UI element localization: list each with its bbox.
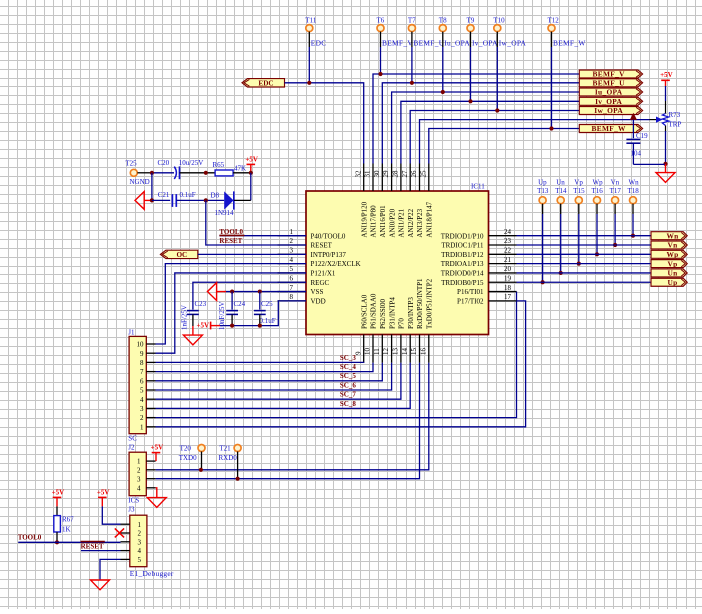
svg-text:SC_7: SC_7 [340, 391, 356, 399]
svg-text:T12: T12 [548, 17, 560, 25]
IC pin 28 (ANI1/P21) [392, 164, 406, 238]
svg-text:2: 2 [290, 237, 294, 245]
svg-text:R65: R65 [213, 161, 225, 169]
wire net SC_4 [156, 363, 374, 372]
svg-text:C25: C25 [261, 300, 273, 308]
junction Iw_OPA/T10 [495, 108, 499, 112]
svg-text:TRDIOB1/P12: TRDIOB1/P12 [441, 251, 484, 259]
wire J3 pin5 to gnd [100, 559, 121, 580]
svg-text:VSS: VSS [311, 288, 324, 296]
wire T21 drop [237, 452, 239, 479]
test point T15 (Vp) [573, 178, 585, 203]
svg-text:1: 1 [290, 228, 294, 236]
svg-text:T11: T11 [305, 17, 317, 25]
wire T9 to net row [470, 32, 472, 47]
svg-text:21: 21 [504, 256, 512, 264]
J2 pin 1 [137, 458, 156, 466]
svg-text:ANI2/P22: ANI2/P22 [407, 208, 415, 237]
svg-text:29: 29 [382, 170, 390, 178]
capacitor C24 10nF/25V [218, 292, 246, 330]
svg-text:INTP0/P137: INTP0/P137 [311, 251, 347, 259]
svg-text:T15: T15 [573, 187, 585, 195]
wire net TXD0 (J2 pin2 - IC pin16) [156, 363, 429, 470]
test point T25 (NGND) [130, 169, 137, 176]
wire net SC_6 [156, 363, 392, 390]
svg-text:T17: T17 [610, 187, 622, 195]
svg-text:104: 104 [631, 150, 642, 158]
IC pin 29 (ANI0/P20) [382, 164, 396, 238]
svg-text:T8: T8 [439, 17, 447, 25]
svg-text:12: 12 [382, 348, 390, 356]
wire net X2 (J1 pin10 - IC pin4) [156, 264, 307, 344]
J1 pin 10 [137, 341, 156, 349]
junction VSS/C24 [230, 289, 234, 293]
svg-text:9: 9 [140, 350, 144, 358]
svg-text:TRDIOC1/P11: TRDIOC1/P11 [441, 242, 484, 250]
svg-text:NGND: NGND [130, 178, 150, 186]
svg-text:T25: T25 [125, 160, 137, 168]
net flag Iv_OPA [579, 97, 642, 106]
IC pin 31 (ANI17/P80) [364, 164, 378, 238]
junction BEMF_W/T12 [549, 126, 553, 130]
test point T18 (Wn) [628, 178, 640, 203]
svg-text:2: 2 [137, 466, 141, 474]
svg-text:T14: T14 [555, 187, 567, 195]
wire net SC_5 [156, 363, 383, 381]
svg-text:C19: C19 [636, 132, 648, 140]
wire node to D8 cathode [250, 173, 252, 201]
J2 pin 4 [137, 484, 156, 492]
svg-text:19: 19 [504, 274, 512, 282]
wire R65 to +5V node [233, 172, 251, 174]
svg-text:ANI16/P01: ANI16/P01 [379, 205, 387, 238]
svg-text:T7: T7 [408, 17, 416, 25]
svg-text:T20: T20 [180, 444, 192, 452]
IC pin 12 (P31/INTP4) [382, 297, 396, 363]
ground (J3) [91, 580, 110, 590]
svg-text:C23: C23 [195, 300, 207, 308]
wire T13 drop [542, 204, 544, 214]
svg-text:13: 13 [392, 348, 400, 356]
net flag BEMF_W [579, 124, 642, 133]
svg-text:EDC: EDC [311, 38, 327, 47]
wire net VSS [225, 291, 307, 293]
capacitor C21 0.1uF [158, 191, 196, 207]
wire net TI01 (IC pin18 - J1 pin2) [156, 292, 517, 418]
svg-text:2: 2 [140, 414, 144, 422]
svg-text:Wp: Wp [593, 178, 604, 186]
wire net Vp [517, 263, 653, 265]
wire net OC (pin3) [198, 253, 306, 255]
wire +5V to R73 [665, 80, 667, 86]
J2 pin 2 [137, 466, 156, 474]
wire gnd stub VSS [217, 291, 226, 293]
junction VDD/C24 [230, 324, 234, 328]
svg-text:30: 30 [373, 170, 381, 178]
svg-text:RESET: RESET [81, 543, 104, 551]
wire gnd stub [665, 164, 667, 173]
test point T11 (EDC) [305, 17, 326, 48]
svg-text:ANI18/P147: ANI18/P147 [426, 201, 434, 237]
IC pin 18 (P16/TI01) [457, 284, 516, 296]
IC pin 30 (ANI16/P01) [373, 164, 387, 238]
J1 pin 7 [140, 368, 156, 376]
IC pin 2 (RESET) [278, 237, 333, 249]
svg-text:+5V: +5V [245, 155, 258, 163]
svg-text:Vn: Vn [667, 241, 677, 250]
wire T15 drop [578, 204, 580, 214]
IC pin 25 (ANI18/P147) [419, 164, 433, 238]
junction R65/+5V/D8 [249, 171, 253, 175]
junction EDC/T11 [307, 81, 311, 85]
svg-text:Wn: Wn [666, 231, 678, 240]
svg-text:26: 26 [410, 170, 418, 178]
J3 pin 4 [121, 547, 142, 555]
svg-text:BEMF_U: BEMF_U [593, 79, 626, 88]
wire net TOOL0 (pin1) [219, 235, 306, 237]
junction T17 [613, 243, 617, 247]
svg-text:Un: Un [556, 178, 565, 186]
svg-text:Iw_OPA: Iw_OPA [594, 106, 623, 115]
svg-text:T9: T9 [467, 17, 475, 25]
svg-text:10: 10 [137, 341, 145, 349]
net flag Up [651, 278, 687, 287]
svg-text:4: 4 [290, 256, 294, 264]
svg-text:RESET: RESET [219, 237, 242, 245]
IC pin 16 (TxD0/P51/INTP2) [419, 278, 433, 362]
wire net SC_3 [156, 361, 364, 363]
wire gnd to C21 [144, 199, 152, 201]
svg-text:R73: R73 [669, 111, 681, 119]
ground (C23) [183, 335, 202, 345]
wire net VDD [220, 301, 306, 326]
wire T6 to net row [380, 32, 382, 47]
wire net Iv_OPA [401, 101, 579, 163]
svg-text:0.1uF: 0.1uF [180, 191, 196, 199]
J1 pin 4 [140, 396, 156, 404]
ground (R73/C19) [656, 173, 675, 183]
wire T20 drop [201, 452, 203, 470]
svg-text:Un: Un [667, 269, 677, 278]
svg-text:TRP: TRP [669, 121, 682, 129]
svg-text:T10: T10 [493, 17, 505, 25]
net flag Iu_OPA [579, 88, 642, 97]
net flag Wn [651, 231, 687, 240]
IC pin 13 (P70) [392, 318, 406, 363]
svg-text:C24: C24 [234, 300, 246, 308]
svg-text:J3: J3 [128, 506, 135, 514]
IC pin 27 (ANI2/P22) [401, 164, 415, 238]
wire D8 cathode [234, 199, 251, 201]
svg-text:BEMF_U: BEMF_U [413, 38, 444, 47]
svg-text:P121/X1: P121/X1 [311, 270, 336, 278]
IC pin 11 (P62/SSI00) [373, 299, 387, 363]
svg-text:10: 10 [364, 348, 372, 356]
svg-text:T21: T21 [219, 444, 231, 452]
wire net SC_8 [156, 363, 411, 409]
svg-text:20: 20 [504, 265, 512, 273]
J1 pin 8 [140, 359, 156, 367]
IC pin 4 (P122/X2/EXCLK) [278, 256, 361, 268]
junction T14 [559, 271, 563, 275]
J1 pin 3 [140, 405, 156, 413]
svg-text:28: 28 [392, 170, 400, 178]
svg-text:2: 2 [138, 530, 142, 538]
connector J1 (SC) [128, 329, 146, 443]
IC pin 17 (P17/TI02) [457, 293, 516, 305]
+5V power (R73) [660, 71, 673, 80]
wire net Iu_OPA [392, 92, 580, 164]
svg-text:TOOL0: TOOL0 [18, 534, 42, 542]
J3 pin 1 [121, 521, 142, 529]
arrow marker on Iw row at C19 branch [630, 113, 637, 120]
svg-text:ICS: ICS [128, 496, 139, 504]
svg-text:15: 15 [410, 348, 418, 356]
trimmer R73 (TRP) [650, 101, 682, 131]
wire net Wn [517, 235, 653, 237]
test point T21 (RXD0) [234, 445, 241, 452]
wire net SC_7 [156, 363, 401, 399]
wire T8 to net row [442, 32, 444, 47]
junction T16 [595, 252, 599, 256]
net flag OC [160, 250, 197, 259]
wire net BEMF_U [382, 83, 579, 164]
svg-text:5: 5 [138, 556, 142, 564]
net flag Iw_OPA [579, 106, 642, 115]
svg-text:R67: R67 [62, 516, 74, 524]
svg-text:SC_8: SC_8 [340, 400, 356, 408]
svg-text:3: 3 [290, 247, 294, 255]
svg-text:16: 16 [419, 348, 427, 356]
net flag EDC [242, 79, 285, 88]
svg-text:8: 8 [140, 359, 144, 367]
test point T7 (BEMF_U) [408, 17, 445, 48]
IC pin 9 (P60/SCLA0) [354, 294, 368, 363]
wire T11 to net row [308, 32, 310, 47]
svg-text:D8: D8 [211, 192, 220, 200]
IC pin 21 (TRDIOA1/P13) [441, 256, 517, 268]
svg-text:1nF/25V: 1nF/25V [181, 305, 189, 330]
svg-text:J2: J2 [128, 444, 135, 452]
ground (C21) [135, 192, 144, 210]
svg-text:Up: Up [538, 178, 547, 186]
J1 pin 2 [140, 414, 156, 422]
J1 pin 9 [140, 350, 156, 358]
svg-text:RESET: RESET [311, 242, 333, 250]
svg-text:10u/25V: 10u/25V [179, 159, 204, 167]
capacitor C19 [626, 120, 648, 165]
svg-text:1K: 1K [62, 526, 71, 534]
svg-text:3: 3 [138, 538, 142, 546]
svg-text:5: 5 [140, 387, 144, 395]
IC pin 14 (P30/INTP3) [401, 297, 415, 363]
svg-text:OC: OC [176, 251, 187, 259]
wire net RESET (bottom) [81, 550, 121, 552]
junction Iu_OPA/T8 [441, 90, 445, 94]
svg-text:6: 6 [140, 377, 144, 385]
resistor R67 1K [54, 516, 74, 534]
svg-text:+5V: +5V [197, 321, 210, 329]
junction C20/D8 branch [204, 171, 208, 175]
junction C21 left [150, 198, 154, 202]
net flag Wp [651, 250, 687, 259]
svg-text:22: 22 [504, 247, 512, 255]
net flag BEMF_U [579, 79, 642, 88]
svg-text:P60/SCLA0: P60/SCLA0 [360, 294, 368, 329]
svg-text:ANI1/P21: ANI1/P21 [398, 208, 406, 237]
wire net BEMF_W [429, 129, 580, 164]
wire C19 to gnd node [633, 163, 665, 165]
svg-text:Vp: Vp [667, 259, 677, 268]
net flag Un [651, 269, 687, 278]
svg-text:T16: T16 [592, 187, 604, 195]
+5V power (J3) [97, 488, 110, 497]
wire +5V to J2 pin1 [155, 453, 157, 462]
IC pin 22 (TRDIOB1/P12) [441, 247, 516, 259]
svg-text:J1: J1 [128, 329, 135, 337]
wire net Un [517, 272, 653, 274]
svg-text:Vn: Vn [611, 178, 620, 186]
svg-text:3: 3 [140, 405, 144, 413]
svg-text:E1_Debugger: E1_Debugger [130, 569, 174, 578]
wire +5V to R67 [56, 497, 58, 506]
svg-text:TRDIOA1/P13: TRDIOA1/P13 [441, 260, 484, 268]
wire net Iw_OPA [410, 111, 579, 164]
net flag Vn [651, 241, 687, 250]
wire net Wp [517, 253, 653, 255]
+5V power (VDD rail) [197, 321, 221, 329]
IC pin 32 (ANI19/P120) [354, 164, 368, 238]
wire T25 to node [137, 172, 152, 174]
wire net BEMF_V [373, 74, 579, 164]
wire T10 to net row [496, 32, 498, 47]
svg-text:SC_4: SC_4 [340, 363, 356, 371]
svg-text:Vp: Vp [574, 178, 583, 186]
wire T18 drop [632, 204, 634, 214]
svg-text:7: 7 [290, 284, 294, 292]
+5V power (J2) [151, 444, 164, 453]
svg-text:Iv_OPA: Iv_OPA [595, 97, 622, 106]
wire net TOOL0 (bottom) [18, 541, 120, 543]
junction T15 [577, 262, 581, 266]
IC pin 24 (TRDIOD1/P10) [441, 228, 517, 240]
+5V power (R67) [52, 488, 65, 497]
IC pin 3 (INTP0/P137) [278, 247, 347, 259]
svg-text:T6: T6 [377, 17, 385, 25]
IC pin 6 (REGC) [278, 274, 330, 286]
svg-text:1: 1 [138, 521, 142, 529]
wire to C21 [152, 199, 170, 201]
IC pin 7 (VSS) [278, 284, 324, 296]
connector J2 (ICS) [128, 444, 146, 505]
IC pin 5 (P121/X1) [278, 265, 336, 277]
test point T8 (Iu_OPA) [439, 17, 471, 48]
svg-text:7: 7 [140, 368, 144, 376]
connector J3 (E1_Debugger) [128, 506, 174, 579]
svg-text:RxD0/P50/INTP1: RxD0/P50/INTP1 [416, 278, 424, 329]
svg-text:1: 1 [137, 458, 141, 466]
svg-text:IC11: IC11 [471, 182, 485, 190]
svg-text:P70: P70 [398, 318, 406, 329]
junction Iv_OPA/T9 [468, 99, 472, 103]
svg-text:+5V: +5V [97, 488, 110, 496]
J3 pin 3 [121, 538, 142, 546]
svg-text:17: 17 [504, 293, 512, 301]
svg-text:Wp: Wp [666, 250, 678, 259]
IC pin 20 (TRDIOD0/P14) [441, 265, 517, 277]
svg-text:BEMF_V: BEMF_V [593, 70, 626, 79]
vertical wire T25 node to C21 node [151, 173, 153, 201]
junction R73/C19 gnd node [663, 162, 667, 166]
wire C21 to D8 [176, 199, 224, 201]
svg-text:SC_3: SC_3 [340, 354, 356, 362]
svg-text:25: 25 [419, 170, 427, 178]
svg-text:Iv_OPA: Iv_OPA [472, 38, 498, 47]
svg-text:Wn: Wn [629, 178, 640, 186]
IC pin 1 (P40/TOOL0) [278, 228, 346, 240]
IC pin 26 (ANI3/P23) [410, 164, 424, 238]
test point T14 (Un) [555, 178, 567, 203]
IC pin 23 (TRDIOC1/P11) [441, 237, 516, 249]
wire T14 drop [560, 204, 562, 214]
svg-text:47K: 47K [234, 164, 246, 172]
junction BEMF_V/T6 [378, 72, 382, 76]
wire net X1 (J1 pin9 - IC pin5) [156, 273, 307, 353]
svg-text:+5V: +5V [52, 488, 65, 496]
svg-text:T13: T13 [537, 187, 549, 195]
svg-text:Up: Up [667, 278, 677, 287]
IC pin 8 (VDD) [278, 293, 326, 305]
IC pin 10 (P61/SDAA0) [364, 293, 378, 363]
wire T7 to net row [411, 32, 413, 47]
svg-text:VDD: VDD [311, 297, 326, 305]
svg-text:+5V: +5V [151, 444, 164, 452]
svg-text:P31/INTP4: P31/INTP4 [388, 297, 396, 329]
svg-text:27: 27 [401, 170, 409, 178]
test point T16 (Wp) [592, 178, 604, 203]
svg-text:BEMF_V: BEMF_V [382, 38, 413, 47]
junction C21/D8/RESET [204, 198, 208, 202]
svg-text:SC_6: SC_6 [340, 381, 356, 389]
J2 pin 3 [137, 475, 156, 483]
svg-text:5: 5 [290, 265, 294, 273]
svg-text:+5V: +5V [660, 71, 673, 79]
capacitor C20 [158, 159, 204, 179]
svg-text:1: 1 [140, 423, 144, 431]
svg-text:31: 31 [364, 170, 372, 178]
wire net Vn [517, 244, 653, 246]
svg-text:TxD0/P51/INTP2: TxD0/P51/INTP2 [426, 278, 434, 329]
wire net RESET (D8 node to pin2) [206, 200, 306, 245]
net flag BEMF_V [579, 70, 642, 79]
resistor R65 47K [213, 161, 247, 176]
svg-text:ANI17/P80: ANI17/P80 [370, 205, 378, 238]
junction BEMF_U/T7 [410, 81, 414, 85]
test point T10 (Iw_OPA) [493, 17, 526, 48]
svg-text:8: 8 [290, 293, 294, 301]
svg-text:18: 18 [504, 284, 512, 292]
svg-text:TRDIOD1/P10: TRDIOD1/P10 [441, 232, 484, 240]
svg-text:11: 11 [373, 348, 381, 355]
wire REGC to C23 [193, 282, 306, 309]
svg-text:REGC: REGC [311, 279, 330, 287]
IC pin 19 (TRDIOB0/P15) [441, 274, 516, 286]
wire T17 drop [614, 204, 616, 214]
junction T25/C21 branch [150, 171, 154, 175]
junction R67/TOOL0 [55, 540, 59, 544]
svg-text:T18: T18 [628, 187, 640, 195]
svg-text:TXD0: TXD0 [179, 454, 197, 462]
